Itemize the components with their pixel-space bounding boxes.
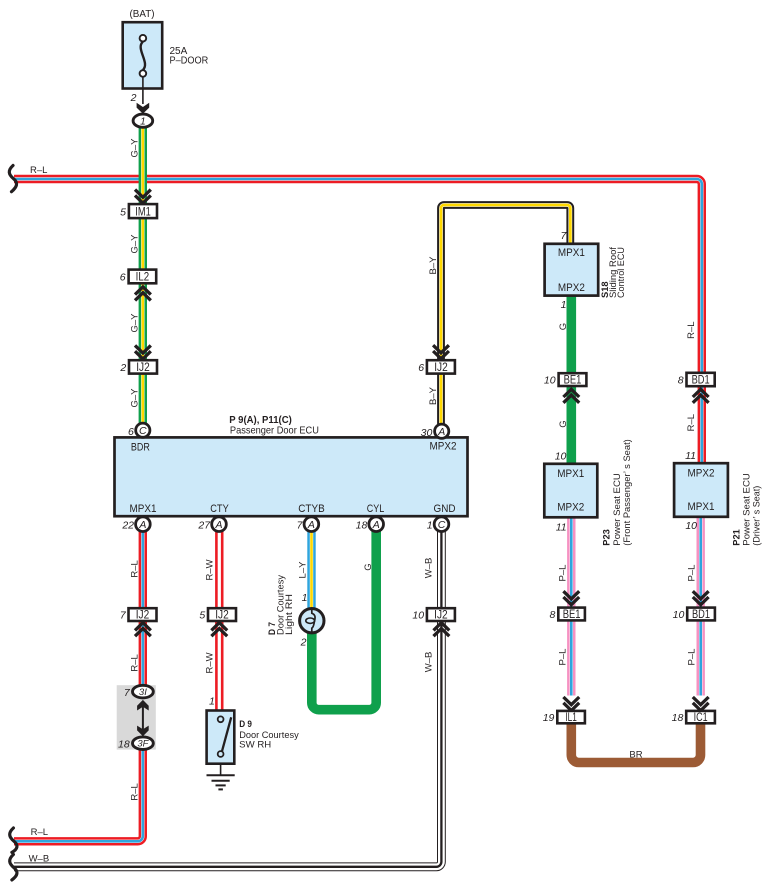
chevron into BD1 from below	[693, 389, 709, 403]
svg-text:IJ2: IJ2	[434, 610, 448, 622]
wire P-L (P23 MPX2 down to IL1)	[567, 517, 575, 695]
connector BD1 (10)	[673, 608, 715, 621]
pin 30 A (top)	[421, 424, 449, 439]
svg-text:GND: GND	[434, 503, 456, 515]
svg-text:6: 6	[418, 362, 424, 374]
svg-text:CYL: CYL	[367, 503, 385, 515]
svg-text:1: 1	[561, 299, 567, 311]
svg-text:MPX1: MPX1	[557, 468, 584, 480]
chevron into IJ2 (10) from below	[434, 623, 450, 637]
connector IM1	[120, 204, 157, 218]
svg-text:MPX2: MPX2	[557, 502, 584, 514]
svg-text:P–DOOR: P–DOOR	[170, 56, 209, 67]
svg-text:A: A	[138, 519, 146, 531]
svg-text:CTYB: CTYB	[298, 503, 325, 515]
pin 18 A (CYL)	[356, 517, 384, 532]
junction block 3I/3F gray box	[117, 685, 156, 749]
chevron into BE1 (8)	[563, 591, 579, 605]
chevron into IL2 from below	[135, 287, 151, 301]
connector 1 oval	[133, 114, 153, 128]
svg-text:19: 19	[543, 712, 555, 724]
wire fuse pin 2 lead	[142, 77, 144, 104]
svg-text:IL2: IL2	[136, 272, 150, 284]
svg-text:30: 30	[421, 427, 433, 439]
svg-text:R–W: R–W	[205, 559, 216, 580]
chevron into IL1	[563, 697, 579, 711]
fuse 25A P-DOOR box	[123, 22, 209, 88]
svg-text:1: 1	[140, 117, 146, 128]
svg-text:IJ2: IJ2	[136, 362, 150, 374]
svg-text:MPX2: MPX2	[558, 282, 585, 294]
svg-text:IJ2: IJ2	[136, 610, 150, 622]
svg-text:(Front Passenger’ s Seat): (Front Passenger’ s Seat)	[622, 439, 633, 546]
svg-text:R–L: R–L	[686, 321, 697, 338]
svg-text:Power Seat ECU: Power Seat ECU	[612, 473, 623, 546]
break symbol bottom W-B	[10, 855, 17, 880]
label S18 Sliding Roof Control ECU	[600, 247, 627, 298]
svg-text:3F: 3F	[137, 739, 149, 750]
svg-text:G: G	[363, 563, 374, 570]
ground symbol	[207, 764, 235, 790]
svg-text:IJ2: IJ2	[215, 610, 229, 622]
svg-text:G: G	[558, 420, 569, 427]
chevron into IJ2 (6)	[433, 345, 449, 359]
svg-text:IJ2: IJ2	[434, 362, 448, 374]
connector IJ2 (6)	[418, 360, 455, 374]
wire BR (IL1 to IC1 U shape)	[571, 723, 700, 763]
chevron into IM1	[135, 190, 151, 204]
svg-text:IM1: IM1	[135, 206, 151, 218]
svg-text:2: 2	[300, 637, 307, 649]
svg-text:27: 27	[197, 520, 211, 532]
svg-text:Passenger Door ECU: Passenger Door ECU	[230, 425, 319, 437]
svg-text:BD1: BD1	[692, 609, 710, 621]
chevron into IC1	[693, 697, 709, 711]
wire R-W (CTY pin 27 to D9 switch)	[215, 528, 223, 711]
svg-text:6: 6	[120, 272, 126, 284]
svg-text:R–L: R–L	[30, 165, 47, 176]
wire G (CYL pin to D7 lamp, U shape)	[312, 528, 376, 710]
wire W-B (GND pin 1 down and to bottom-left edge)	[14, 528, 441, 867]
svg-text:11: 11	[685, 450, 696, 462]
svg-text:BE1: BE1	[564, 375, 582, 387]
svg-text:IL1: IL1	[565, 712, 577, 724]
wire B-Y (IJ2 up, over to S18 MPX1 pin 7)	[441, 205, 570, 428]
svg-text:1: 1	[209, 696, 215, 708]
svg-text:R–L: R–L	[129, 560, 140, 577]
svg-text:10: 10	[555, 451, 567, 463]
svg-text:L–Y: L–Y	[298, 561, 309, 579]
connector IL2	[120, 270, 156, 284]
svg-text:R–L: R–L	[31, 827, 48, 838]
pin 7 A (CTYB)	[297, 517, 319, 532]
svg-text:MPX1: MPX1	[130, 503, 157, 515]
svg-text:IC1: IC1	[694, 712, 708, 724]
ECU S18 Sliding Roof Control ECU box	[545, 244, 599, 296]
svg-text:G–Y: G–Y	[129, 388, 140, 408]
pin 27 A (CTY)	[197, 517, 226, 532]
svg-text:G–Y: G–Y	[129, 313, 140, 333]
svg-text:(BAT): (BAT)	[130, 9, 155, 20]
svg-text:G–Y: G–Y	[129, 138, 140, 158]
svg-text:D 9: D 9	[239, 719, 252, 730]
label P23 Power Seat ECU (Front Passenger's Seat)	[602, 439, 634, 546]
svg-text:3I: 3I	[139, 687, 147, 698]
svg-text:W–B: W–B	[424, 558, 435, 579]
svg-text:18: 18	[118, 738, 130, 750]
svg-text:MPX2: MPX2	[430, 441, 457, 453]
svg-text:Control ECU: Control ECU	[616, 247, 627, 298]
svg-text:10: 10	[685, 520, 697, 532]
wire P-L (P21 MPX1 down to IC1)	[697, 517, 705, 696]
svg-text:BDR: BDR	[131, 442, 150, 454]
svg-text:B–Y: B–Y	[428, 256, 439, 275]
svg-text:B–Y: B–Y	[428, 386, 439, 405]
connector BD1 (8)	[678, 373, 715, 387]
svg-text:Light RH: Light RH	[284, 594, 295, 635]
connector IJ2 (5)	[199, 608, 236, 621]
connector BE1 (10)	[544, 373, 586, 386]
wire R-L main (top horizontal + right vertical to P21)	[14, 179, 702, 463]
pin 22 A (MPX1)	[121, 517, 150, 532]
connector 3F (18)	[118, 737, 153, 751]
wire L-Y (CTYB pin 7 to D7 lamp)	[307, 528, 315, 608]
connector IC1 (18)	[672, 711, 715, 724]
wire G (S18 MPX2 to P23 MPX1)	[566, 296, 576, 464]
svg-text:1: 1	[302, 592, 308, 604]
connector IJ2 (2)	[119, 360, 157, 374]
svg-text:1: 1	[427, 520, 433, 532]
pin 6 C (top)	[128, 423, 150, 438]
label D 7 Door Courtesy Light RH	[267, 575, 295, 635]
svg-text:A: A	[214, 519, 222, 531]
svg-text:18: 18	[672, 712, 684, 724]
chevron into IJ2	[135, 345, 151, 359]
ECU P23 Power Seat ECU box	[544, 464, 597, 518]
connector 3I (7)	[124, 685, 153, 699]
connector IJ2 (7)	[120, 608, 157, 621]
svg-text:10: 10	[412, 610, 424, 622]
chevron into IJ2 (7) from below	[135, 623, 151, 637]
junction double arrow	[137, 700, 149, 736]
svg-text:MPX2: MPX2	[688, 468, 715, 480]
label D 9 Door Courtesy SW RH	[239, 719, 299, 751]
svg-text:10: 10	[673, 609, 685, 621]
svg-text:8: 8	[678, 375, 684, 387]
arrow into connector 1	[137, 103, 150, 114]
svg-text:11: 11	[556, 522, 567, 534]
svg-text:C: C	[139, 425, 147, 437]
svg-text:6: 6	[128, 426, 134, 438]
connector IL1 (19)	[543, 711, 585, 724]
svg-text:5: 5	[120, 206, 126, 218]
svg-text:MPX1: MPX1	[688, 501, 715, 513]
svg-text:R–L: R–L	[129, 654, 140, 671]
svg-text:P–L: P–L	[558, 565, 569, 582]
break symbol bottom R-L	[10, 828, 17, 852]
chevron into BD1 (10)	[693, 591, 709, 605]
pin 1 C (GND)	[427, 517, 449, 532]
svg-text:CTY: CTY	[210, 503, 229, 515]
svg-text:R–W: R–W	[205, 652, 216, 673]
label P21 Power Seat ECU (Driver's Seat)	[732, 473, 763, 546]
svg-text:BD1: BD1	[692, 375, 710, 387]
svg-text:R–L: R–L	[686, 414, 697, 431]
connector BE1 (8)	[550, 608, 585, 621]
svg-text:G: G	[558, 323, 569, 330]
chevron into BE1 from below	[563, 389, 579, 403]
svg-text:P–L: P–L	[687, 565, 698, 582]
svg-text:P–L: P–L	[687, 649, 698, 666]
switch D9 Door Courtesy SW RH	[207, 711, 235, 764]
svg-text:G–Y: G–Y	[129, 234, 140, 254]
wire G-Y (fuse to ECU pin 6 BDR)	[139, 127, 147, 426]
svg-text:8: 8	[550, 609, 556, 621]
svg-text:A: A	[307, 519, 315, 531]
svg-text:(Driver’ s Seat): (Driver’ s Seat)	[752, 486, 763, 546]
svg-text:MPX1: MPX1	[558, 247, 585, 259]
ECU P9/P11 Passenger Door ECU box	[115, 437, 468, 516]
lamp D7 Door Courtesy Light RH	[300, 609, 324, 633]
svg-text:C: C	[438, 519, 446, 531]
svg-text:22: 22	[121, 520, 134, 532]
svg-text:18: 18	[356, 520, 368, 532]
svg-text:10: 10	[544, 375, 556, 387]
svg-text:SW RH: SW RH	[239, 740, 271, 751]
svg-text:5: 5	[199, 610, 205, 622]
svg-text:BE1: BE1	[563, 609, 581, 621]
chevron into IJ2 (5) from below	[211, 623, 227, 637]
svg-text:BR: BR	[629, 750, 642, 761]
svg-text:2: 2	[119, 362, 126, 374]
ECU P21 Power Seat ECU box	[674, 463, 728, 517]
connector IJ2 (10)	[412, 608, 454, 621]
svg-text:R–L: R–L	[129, 783, 140, 800]
svg-text:2: 2	[130, 92, 137, 104]
svg-text:W–B: W–B	[29, 853, 50, 864]
break symbol top left	[9, 166, 16, 192]
svg-text:A: A	[437, 426, 445, 438]
svg-text:W–B: W–B	[424, 652, 435, 673]
svg-text:A: A	[372, 519, 380, 531]
wire R-L (MPX1 pin 22 down to bottom-left edge)	[14, 528, 143, 841]
svg-text:P–L: P–L	[558, 649, 569, 666]
